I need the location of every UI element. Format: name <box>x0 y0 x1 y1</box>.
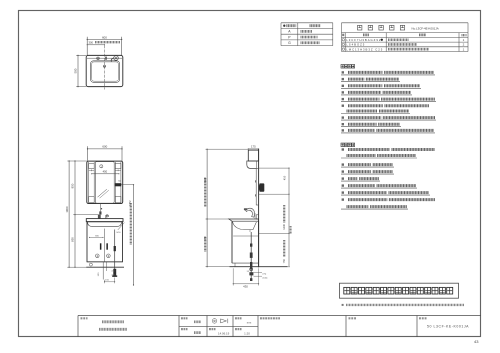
svg-text:450: 450 <box>103 169 108 173</box>
svg-text:(50): (50) <box>112 274 116 276</box>
svg-text:430: 430 <box>243 284 248 288</box>
svg-text:LS4BOZ5: LS4BOZ5 <box>346 43 365 47</box>
svg-text:500: 500 <box>74 68 78 73</box>
svg-text:mm: mm <box>247 321 252 324</box>
svg-text:300: 300 <box>89 41 94 45</box>
svg-text:No.L3CF-4E-K001JA: No.L3CF-4E-K001JA <box>412 27 439 31</box>
svg-text:410: 410 <box>283 175 287 180</box>
svg-text:600: 600 <box>102 144 107 148</box>
svg-text:(75): (75) <box>263 273 267 275</box>
svg-text:(75): (75) <box>112 271 116 273</box>
svg-text:43: 43 <box>474 339 479 344</box>
svg-text:175: 175 <box>251 144 256 148</box>
svg-text:950: 950 <box>71 183 75 188</box>
svg-text:(100): (100) <box>263 277 268 279</box>
svg-text:1230: 1230 <box>282 223 286 229</box>
svg-text:LMC13H3B3Z C25: LMC13H3B3Z C25 <box>346 47 383 51</box>
svg-text:14.06.19: 14.06.19 <box>218 331 230 335</box>
svg-text:L3CF7H3BAGZ92: L3CF7H3BAGZ92 <box>346 38 381 42</box>
svg-text:50 L3CF-KE-K001JA: 50 L3CF-KE-K001JA <box>427 325 469 329</box>
svg-text:1900: 1900 <box>65 206 69 213</box>
svg-text:G: G <box>288 41 291 45</box>
svg-text:850: 850 <box>71 237 75 242</box>
svg-text:1:20: 1:20 <box>244 331 250 335</box>
svg-text:750: 750 <box>282 258 286 263</box>
svg-text:600: 600 <box>102 35 107 39</box>
